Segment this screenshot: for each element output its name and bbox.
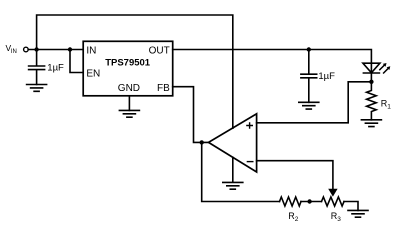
- junction dot output cap node: [307, 47, 311, 51]
- wire R3 to ground: [344, 202, 358, 211]
- wire OUT line to LED anode: [173, 50, 372, 74]
- svg-text:1µF: 1µF: [47, 62, 64, 73]
- svg-text:FB: FB: [157, 83, 170, 94]
- wire VIN to IN pin: [28, 49, 83, 51]
- IC U1 TPS79501 box: [83, 41, 173, 96]
- ground R1: [361, 120, 381, 127]
- op-amp minus sign: [247, 161, 252, 163]
- svg-text:EN: EN: [86, 68, 100, 79]
- node VIN terminal: [24, 47, 29, 52]
- junction dot LED cathode node: [369, 80, 373, 84]
- junction dot op-amp output node: [200, 140, 204, 144]
- ground R3: [348, 210, 368, 217]
- ground C2: [299, 102, 319, 109]
- wire R2 to R3: [301, 201, 322, 203]
- svg-text:TPS79501: TPS79501: [105, 58, 151, 69]
- wiper arrow R3: [328, 189, 337, 197]
- wire output node down to R2: [202, 142, 280, 201]
- resistor R3 potentiometer: [322, 197, 345, 206]
- LED D1: [363, 63, 380, 82]
- svg-text:GND: GND: [118, 83, 140, 94]
- op-amp U2 triangle: [209, 114, 257, 172]
- junction dot input node at EN branch: [68, 47, 72, 51]
- wire op-amp minus input to R3 wiper: [257, 161, 333, 189]
- ground C1: [27, 85, 47, 92]
- capacitor C2 1uF: [301, 50, 317, 103]
- wire FB to op-amp output node: [173, 87, 209, 143]
- wire top rail VIN to op-amp V+ supply: [37, 15, 233, 128]
- resistor R2: [280, 197, 302, 206]
- ground U1 GND: [119, 110, 139, 117]
- ground op-amp: [223, 157, 243, 189]
- svg-text:1: 1: [387, 103, 391, 110]
- capacitor C1 1uF: [29, 50, 45, 85]
- svg-text:2: 2: [295, 216, 299, 223]
- op-amp plus sign: [247, 123, 252, 128]
- svg-text:3: 3: [337, 216, 341, 223]
- LED light arrows: [380, 65, 388, 73]
- junction dot R2 R3 node: [307, 199, 311, 203]
- resistor R1: [367, 82, 377, 120]
- svg-text:IN: IN: [86, 46, 96, 57]
- wire EN branch: [70, 50, 83, 73]
- svg-text:IN: IN: [11, 49, 17, 55]
- junction dot input node at riser: [34, 47, 38, 51]
- wire GND pin stub: [128, 96, 130, 111]
- svg-text:1µF: 1µF: [318, 71, 335, 82]
- svg-text:OUT: OUT: [149, 46, 170, 57]
- wire LED cathode node to op-amp + input: [257, 82, 370, 123]
